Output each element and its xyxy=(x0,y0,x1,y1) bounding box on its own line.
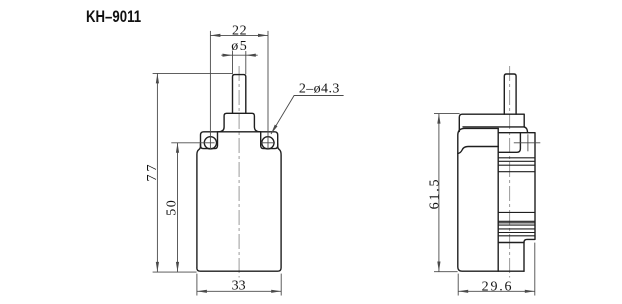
svg-text:50: 50 xyxy=(164,199,179,216)
svg-text:22: 22 xyxy=(232,24,247,39)
svg-text:ø5: ø5 xyxy=(231,39,248,54)
svg-text:29.6: 29.6 xyxy=(482,280,514,295)
svg-text:33: 33 xyxy=(232,278,246,293)
svg-text:2–ø4.3: 2–ø4.3 xyxy=(299,81,340,96)
svg-text:61.5: 61.5 xyxy=(427,178,442,210)
svg-text:KH–9011: KH–9011 xyxy=(86,8,141,27)
svg-text:77: 77 xyxy=(145,162,160,182)
